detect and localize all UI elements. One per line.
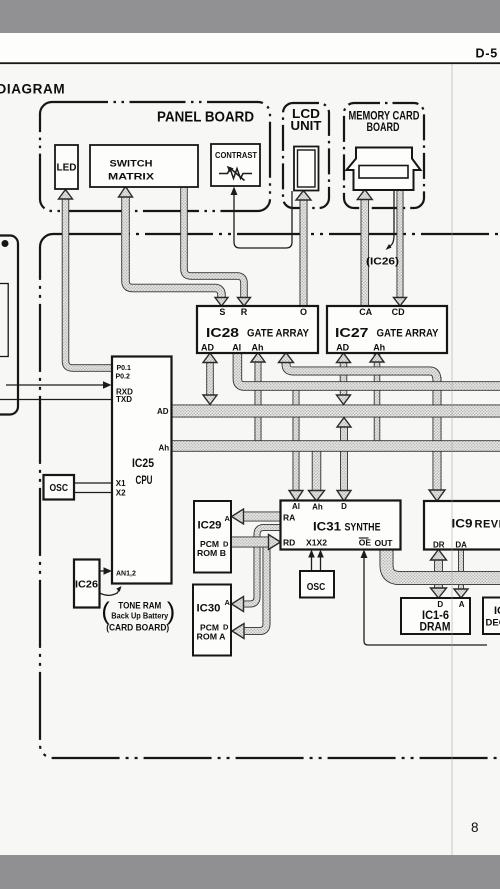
svg-text:X1X2: X1X2 bbox=[306, 538, 327, 548]
svg-text:O: O bbox=[300, 307, 307, 317]
svg-text:A: A bbox=[459, 600, 465, 609]
svg-text:Ah: Ah bbox=[373, 343, 385, 353]
svg-text:AD: AD bbox=[336, 343, 349, 353]
svg-text:D: D bbox=[223, 623, 229, 632]
svg-text:(CARD BOARD): (CARD BOARD) bbox=[106, 623, 169, 634]
svg-text:ROM A: ROM A bbox=[197, 632, 226, 642]
svg-text:RD: RD bbox=[283, 538, 295, 548]
svg-text:DIAGRAM: DIAGRAM bbox=[0, 82, 65, 97]
svg-text:GATE ARRAY: GATE ARRAY bbox=[247, 328, 310, 340]
svg-text:IC30: IC30 bbox=[197, 603, 221, 615]
svg-text:BOARD: BOARD bbox=[367, 120, 400, 134]
svg-text:ROM B: ROM B bbox=[197, 548, 226, 558]
svg-text:(: ( bbox=[101, 598, 110, 626]
svg-text:LED: LED bbox=[57, 163, 77, 174]
svg-text:UNIT: UNIT bbox=[291, 118, 322, 133]
svg-text:IC27: IC27 bbox=[335, 326, 369, 340]
svg-text:IC31: IC31 bbox=[313, 520, 341, 534]
svg-text:OE: OE bbox=[359, 538, 372, 548]
svg-text:IC9: IC9 bbox=[452, 517, 473, 531]
svg-text:IC28: IC28 bbox=[206, 326, 239, 340]
svg-text:R: R bbox=[241, 307, 248, 317]
svg-text:S: S bbox=[219, 307, 225, 317]
svg-text:PANEL BOARD: PANEL BOARD bbox=[157, 109, 254, 126]
svg-text:A: A bbox=[225, 598, 231, 607]
svg-text:AD: AD bbox=[201, 343, 214, 353]
svg-text:IC29: IC29 bbox=[198, 520, 222, 532]
svg-text:Ah: Ah bbox=[159, 444, 170, 453]
svg-text:IC1-6: IC1-6 bbox=[422, 610, 449, 622]
svg-text:OSC: OSC bbox=[307, 581, 326, 593]
svg-text:TXD: TXD bbox=[116, 395, 132, 404]
svg-text:DA: DA bbox=[455, 541, 467, 550]
svg-text:SYNTHE: SYNTHE bbox=[345, 522, 381, 534]
svg-text:DECO: DECO bbox=[486, 618, 500, 629]
svg-text:D: D bbox=[437, 600, 443, 609]
svg-text:RA: RA bbox=[283, 513, 295, 523]
svg-text:A: A bbox=[225, 514, 231, 523]
svg-text:CA: CA bbox=[359, 307, 372, 317]
svg-text:(IC26): (IC26) bbox=[366, 256, 399, 268]
svg-text:AD: AD bbox=[157, 407, 169, 416]
svg-text:OUT: OUT bbox=[375, 538, 394, 548]
svg-text:GATE ARRAY: GATE ARRAY bbox=[377, 328, 440, 340]
svg-text:Ah: Ah bbox=[252, 343, 264, 353]
svg-text:D-5: D-5 bbox=[476, 47, 499, 61]
svg-text:SWITCH: SWITCH bbox=[110, 159, 153, 170]
svg-text:X2: X2 bbox=[116, 489, 126, 498]
svg-text:OSC: OSC bbox=[50, 482, 69, 494]
svg-text:8: 8 bbox=[471, 820, 479, 835]
svg-text:CPU: CPU bbox=[136, 475, 153, 487]
svg-text:MATRIX: MATRIX bbox=[108, 172, 155, 183]
svg-text:D: D bbox=[341, 502, 347, 511]
svg-text:X1: X1 bbox=[116, 479, 126, 488]
svg-text:P0.2: P0.2 bbox=[116, 374, 131, 381]
svg-text:Back Up Battery: Back Up Battery bbox=[111, 612, 168, 621]
svg-text:IC26: IC26 bbox=[75, 579, 98, 591]
svg-text:DR: DR bbox=[433, 541, 445, 550]
svg-text:Al: Al bbox=[232, 343, 241, 353]
svg-text:): ) bbox=[167, 598, 175, 626]
svg-text:IC7: IC7 bbox=[494, 605, 500, 617]
svg-text:CONTRAST: CONTRAST bbox=[215, 150, 258, 160]
svg-text:CD: CD bbox=[392, 307, 405, 317]
svg-text:Al: Al bbox=[292, 502, 300, 511]
svg-text:AN1,2: AN1,2 bbox=[116, 571, 136, 578]
svg-text:Ah: Ah bbox=[312, 503, 323, 512]
svg-text:DRAM: DRAM bbox=[420, 622, 451, 634]
svg-text:IC25: IC25 bbox=[132, 458, 155, 470]
svg-text:P0.1: P0.1 bbox=[117, 365, 132, 372]
svg-text:REVERB: REVERB bbox=[475, 519, 500, 531]
svg-text:TONE RAM: TONE RAM bbox=[118, 601, 161, 611]
